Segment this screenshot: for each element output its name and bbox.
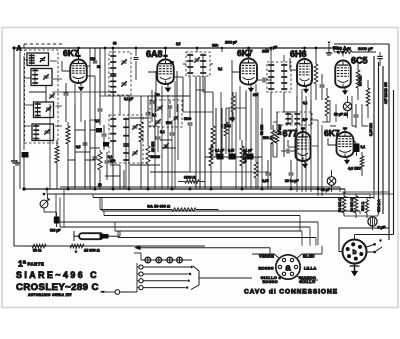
- svg-text:a: a: [285, 263, 291, 274]
- capacitor C31: [290, 160, 292, 172]
- wire dens 3: [215, 108, 217, 157]
- wire drops 2: [154, 96, 156, 189]
- bus 8: [60, 226, 310, 228]
- wire can down: [372, 226, 374, 230]
- wire right mids: [329, 100, 331, 122]
- svg-text:LILLA: LILLA: [304, 266, 317, 271]
- wire dens 11: [84, 120, 86, 189]
- svg-text:AUTORADIO GUIDA XIV: AUTORADIO GUIDA XIV: [28, 293, 72, 297]
- svg-text:20 000: 20 000: [278, 125, 282, 135]
- svg-text:9000 Ω: 9000 Ω: [184, 176, 195, 180]
- svg-text:3000 μF: 3000 μF: [358, 46, 373, 51]
- svg-text:25: 25: [170, 61, 174, 65]
- capacitor C29 blob: [247, 154, 254, 160]
- svg-text:10 000 Ω: 10 000 Ω: [350, 198, 354, 212]
- wire dens 7: [310, 100, 312, 130]
- svg-text:tot. 50 000 Ω: tot. 50 000 Ω: [147, 205, 170, 209]
- wire V1 plate: [78, 48, 80, 56]
- IFT3 secondary: [283, 64, 285, 91]
- node A: [12, 46, 15, 49]
- wire pad mid: [155, 103, 163, 105]
- connector b pins: [359, 252, 363, 256]
- svg-text:μF: μF: [273, 46, 277, 50]
- lamp 2: [156, 257, 162, 263]
- coil L3 box: [34, 102, 54, 118]
- resistor R9: [325, 96, 329, 116]
- wire dens 6: [283, 130, 285, 157]
- arrow V1 cathode: [80, 83, 82, 86]
- resistor R19: [172, 208, 196, 211]
- coil L3: [37, 103, 39, 118]
- coil L1 box: [27, 53, 49, 66]
- wire bottom run: [14, 245, 205, 247]
- tube V5 6C5: [335, 61, 351, 88]
- svg-text:4,3 MΩ: 4,3 MΩ: [348, 167, 361, 171]
- wire h2: [52, 91, 100, 93]
- wire V1 screen: [87, 75, 95, 77]
- wire drops 3: [220, 92, 222, 189]
- wire dens 13: [110, 164, 120, 166]
- svg-text:GIALLO: GIALLO: [299, 279, 316, 284]
- svg-text:50: 50: [113, 42, 117, 46]
- bus junction dots: [23, 188, 26, 191]
- svg-text:6A8: 6A8: [146, 49, 163, 59]
- svg-text:300: 300: [253, 93, 259, 97]
- svg-text:0,5: 0,5: [176, 42, 181, 46]
- ground tuning: [16, 160, 18, 163]
- wire dens 4: [130, 117, 148, 119]
- wire mid column: [128, 95, 130, 189]
- wire left frame lower: [13, 166, 15, 246]
- wire V2 plate top: [165, 48, 167, 56]
- wire switch stub: [50, 60, 57, 62]
- svg-text:0,05: 0,05: [344, 47, 351, 51]
- padder box: [150, 100, 182, 127]
- svg-text:0,5: 0,5: [230, 117, 235, 121]
- resistor R5: [211, 126, 215, 146]
- wire h7: [273, 121, 277, 123]
- connector b circle: [343, 240, 367, 264]
- wire top right link: [352, 51, 376, 53]
- svg-text:0,25 MΩ: 0,25 MΩ: [369, 123, 373, 136]
- wire right elbows: [342, 191, 389, 193]
- resistor R11: [356, 70, 360, 88]
- tube V6 677: [296, 132, 311, 161]
- svg-text:500 Ω: 500 Ω: [361, 201, 365, 211]
- osc enclosure: [109, 115, 143, 163]
- svg-text:30 t.a μF: 30 t.a μF: [285, 179, 298, 183]
- svg-text:b: b: [353, 249, 357, 256]
- svg-text:CAVO di CONNESSIONE: CAVO di CONNESSIONE: [244, 289, 338, 296]
- svg-text:6C5: 6C5: [351, 56, 368, 66]
- capacitor C5 block: [22, 152, 29, 158]
- capacitor C32 blob: [54, 217, 60, 224]
- tube V1 6K7: [70, 60, 87, 83]
- capacitor C35: [171, 120, 173, 132]
- bus 6: [104, 215, 300, 217]
- resistor R3: [139, 122, 143, 142]
- capacitor C6: [65, 83, 67, 92]
- resistor R2: [66, 126, 70, 144]
- wire h5: [226, 107, 246, 109]
- bus chassis 1: [24, 188, 345, 190]
- svg-text:50: 50: [97, 65, 101, 69]
- wire tuning down: [23, 158, 25, 190]
- wire pot: [47, 194, 49, 199]
- wire dens 2: [183, 63, 186, 65]
- IFT1 box: [109, 52, 131, 95]
- wire dens 14: [99, 48, 101, 96]
- wire IFT2 links: [203, 91, 213, 93]
- wire top stubs: [217, 44, 219, 48]
- wire V7 grid: [328, 144, 337, 146]
- trimmer C7: [50, 94, 55, 96]
- resistor R4: [146, 146, 150, 164]
- wire to b: [339, 228, 389, 252]
- IFT1 primary: [112, 55, 114, 76]
- svg-text:ROSSO: ROSSO: [258, 266, 274, 271]
- svg-text:620: 620: [212, 44, 218, 48]
- tube V4 6H6: [297, 59, 312, 86]
- IFT1 secondary: [112, 75, 114, 94]
- wire V6 grid: [288, 146, 296, 148]
- svg-text:5000: 5000: [184, 117, 191, 121]
- svg-text:0,1: 0,1: [160, 130, 165, 134]
- bus verticals: [99, 198, 101, 210]
- resistor R14: [271, 130, 275, 144]
- capacitor C19: [321, 74, 323, 84]
- svg-text:0,1: 0,1: [303, 101, 308, 105]
- svg-text:0,1: 0,1: [361, 145, 366, 149]
- wire IFT1 down: [112, 92, 114, 189]
- capacitor C26 blob: [354, 144, 360, 153]
- capacitor blob A: [96, 128, 102, 133]
- wire dens 15: [90, 59, 95, 61]
- resistor R1: [55, 146, 59, 163]
- wire lamp feed: [136, 247, 270, 249]
- capacitor C33: [157, 128, 159, 136]
- osc coil La: [112, 118, 114, 143]
- capacitor blob B: [103, 142, 109, 147]
- wire h8: [322, 121, 330, 123]
- ground left frame: [13, 158, 15, 161]
- svg-text:300 Ω A: 300 Ω A: [377, 199, 381, 212]
- IFT1 trimmer top: [122, 60, 127, 62]
- coil L4: [35, 125, 37, 141]
- IFT2 primary: [189, 54, 191, 75]
- IFT3 primary: [270, 64, 272, 91]
- coil L1: [31, 54, 33, 65]
- svg-text:500 Ω: 500 Ω: [263, 136, 273, 140]
- fuse R10: [338, 51, 352, 54]
- wire mid horizontals: [190, 171, 268, 173]
- svg-text:PARTE: PARTE: [28, 262, 45, 267]
- resistor R6: [224, 122, 228, 136]
- svg-text:BLEU: BLEU: [303, 254, 315, 259]
- svg-text:6K7: 6K7: [237, 48, 253, 58]
- connector b side pins: [367, 245, 375, 248]
- resistor R24: [70, 244, 84, 248]
- capacitor C20: [377, 55, 383, 57]
- wire dens 16: [177, 104, 179, 127]
- arrow lamp feed: [134, 245, 141, 250]
- capacitor C17: [257, 79, 262, 81]
- wire lamp left: [140, 253, 142, 260]
- trimmer C3: [46, 107, 51, 109]
- capacitor C16: [188, 122, 193, 124]
- arrow V5 cathode: [344, 88, 346, 91]
- wire V4 drops: [296, 74, 298, 192]
- lamp LP1: [327, 177, 336, 186]
- resistor R16: [209, 146, 213, 166]
- tube V3 6K7: [240, 59, 257, 85]
- connector a circle: [276, 255, 300, 279]
- osc trimmer C14: [133, 125, 138, 127]
- trimmer C1: [40, 58, 45, 60]
- svg-text:50 000 Ω: 50 000 Ω: [338, 198, 342, 212]
- capacitor C27 blob: [217, 154, 224, 160]
- svg-text:200: 200: [110, 159, 116, 163]
- resistor R21: [354, 196, 358, 213]
- wire right frame 3: [382, 66, 384, 214]
- wire h3: [148, 125, 158, 127]
- resistor R18: [254, 162, 258, 178]
- bus 7: [56, 221, 318, 223]
- wire left frame: [13, 48, 15, 158]
- IFT2 secondary: [202, 54, 204, 75]
- wire top bus: [14, 47, 334, 49]
- lamp 4: [177, 257, 183, 263]
- wire V4 diode: [290, 69, 297, 71]
- capacitor C23: [103, 125, 105, 133]
- bus 5: [102, 210, 360, 212]
- wire h6: [284, 111, 296, 113]
- wire right frame 1: [373, 56, 375, 190]
- trimmer C34: [164, 144, 169, 146]
- wire dens 5: [160, 139, 172, 141]
- volume pot P1: [40, 200, 48, 208]
- IFT2 box: [186, 52, 210, 76]
- svg-text:VERDE: VERDE: [259, 254, 274, 259]
- capacitor C36: [94, 150, 96, 156]
- AP box: [277, 112, 312, 125]
- wire V1 grid: [62, 70, 70, 72]
- connector a pins: [294, 265, 297, 268]
- wire IFT1 top: [112, 48, 114, 56]
- electrolytic E1: [368, 217, 377, 226]
- IFT3 box: [267, 62, 291, 92]
- wire dens 8: [330, 125, 336, 127]
- arrow V6 cathode: [304, 161, 306, 164]
- svg-text:50 000: 50 000: [359, 76, 363, 86]
- svg-text:10 000: 10 000: [151, 142, 155, 152]
- wire osc drops: [112, 141, 114, 160]
- cable brace: [191, 266, 199, 290]
- coil L4 box: [32, 124, 54, 141]
- ground 6C5 grid: [328, 44, 330, 50]
- resistor R8: [314, 64, 318, 84]
- svg-text:0,5: 0,5: [76, 145, 81, 149]
- cable rail bus: [136, 263, 138, 288]
- wire bank bottom: [344, 215, 378, 217]
- wire IFT3 drops: [270, 92, 272, 130]
- capacitor C18: [265, 48, 267, 52]
- svg-text:50 Ω: 50 Ω: [33, 249, 41, 253]
- trimmer C2: [44, 75, 49, 77]
- svg-text:A: A: [17, 46, 22, 53]
- AP primary: [287, 113, 289, 126]
- connector a wires: [252, 254, 279, 258]
- resistor R15: [360, 156, 364, 168]
- tube V7 6K7: [337, 132, 354, 157]
- capacitor C28 blob: [229, 154, 236, 160]
- wire V4 top: [304, 48, 306, 55]
- wire dens 9: [90, 129, 100, 131]
- ballast resistor: [79, 233, 103, 239]
- wire dens 12: [75, 129, 85, 131]
- padder trimmer C39: [158, 106, 163, 108]
- wire V5 top: [342, 52, 344, 57]
- osc coil Lb: [125, 118, 127, 146]
- capacitor C37: [84, 136, 86, 142]
- resistor R26: [231, 96, 235, 112]
- wire V1 extra drops: [74, 84, 76, 189]
- capacitor C40: [169, 100, 171, 104]
- connector b ground: [354, 264, 356, 273]
- svg-text:500: 500: [166, 121, 172, 125]
- wire blob row: [205, 156, 262, 158]
- band switch enclosure: [25, 50, 59, 143]
- svg-text:500 μF: 500 μF: [50, 229, 60, 233]
- bus 4: [93, 197, 374, 199]
- wire coil feeds: [24, 59, 28, 61]
- wire V3 plate: [248, 48, 250, 55]
- capacitor C38: [93, 60, 98, 62]
- IFT2 trimmer: [195, 58, 200, 60]
- wire V3 grid: [232, 71, 240, 73]
- capacitor C25: [281, 150, 286, 152]
- resistor R17: [240, 146, 244, 166]
- capacitor C22: [99, 96, 101, 108]
- wire drops 4: [261, 108, 263, 189]
- wire right frame 4: [388, 44, 390, 240]
- cable rails: [139, 265, 143, 269]
- jack J1: [343, 102, 351, 110]
- bus 10: [118, 237, 316, 239]
- svg-text:CROSLEY~289 C: CROSLEY~289 C: [16, 282, 99, 293]
- resistor R23: [32, 244, 46, 248]
- resistor R22: [365, 200, 368, 213]
- wire V2 grid: [148, 71, 157, 73]
- wire right frame 2: [378, 62, 380, 214]
- shield V2: [156, 71, 177, 112]
- lamp 3: [167, 257, 173, 263]
- wire IFT1 link: [104, 48, 106, 96]
- wire rail tail: [136, 288, 138, 292]
- wire h4: [183, 111, 213, 113]
- wire V2 drops: [154, 92, 156, 140]
- wire lamp row: [141, 259, 192, 261]
- wire V2 screen: [174, 76, 183, 78]
- coil L2: [34, 69, 36, 85]
- wire right frame 5: [393, 90, 395, 235]
- svg-text:15 000 Ω: 15 000 Ω: [84, 249, 100, 253]
- wire h1: [100, 95, 148, 97]
- bus 9: [115, 230, 302, 232]
- lamp 1: [145, 257, 151, 263]
- AP secondary: [296, 113, 298, 126]
- arrow V3 cathode: [250, 85, 252, 88]
- wire coil common: [19, 48, 21, 189]
- resistor R7: [275, 130, 279, 143]
- svg-text:SIARE~496 C: SIARE~496 C: [16, 270, 99, 280]
- svg-text:OF MOD 65: OF MOD 65: [383, 82, 388, 104]
- svg-text:20: 20: [98, 183, 102, 187]
- capacitor C10: [135, 48, 137, 56]
- IFT1 trimmer bottom: [122, 82, 127, 84]
- wire audio links: [295, 128, 297, 132]
- capacitor C12: [151, 90, 153, 100]
- wire dens 1: [195, 76, 197, 189]
- svg-text:1000 μF: 1000 μF: [225, 41, 237, 45]
- osc coil Lc: [125, 145, 127, 162]
- wire ballast link: [73, 231, 75, 241]
- resistor R20: [342, 196, 346, 213]
- wire pad top: [148, 95, 190, 97]
- wire drops 1: [49, 104, 51, 189]
- tube V2 6A8: [157, 60, 174, 85]
- capacitor C11: [147, 96, 149, 112]
- coil L2 box: [31, 69, 52, 86]
- bus chassis 2: [60, 186, 340, 188]
- osc trimmer C15: [133, 151, 138, 153]
- capacitor C30: [267, 160, 269, 172]
- arrow V2 cathode: [167, 84, 169, 87]
- svg-text:AP: AP: [302, 117, 308, 122]
- svg-text:0,1: 0,1: [218, 67, 223, 71]
- wire IFT2 drop: [189, 76, 191, 120]
- svg-text:0,1 μF: 0,1 μF: [124, 97, 133, 101]
- trimmer C41: [174, 116, 179, 118]
- trimmer C13: [156, 120, 161, 122]
- trimmer C4: [45, 130, 50, 132]
- arrow R24 tap: [75, 246, 77, 250]
- wire top bus dashed: [24, 43, 62, 45]
- arrow V7 cathode: [346, 157, 348, 160]
- capacitor C21: [355, 104, 357, 114]
- wire IFT3 top: [270, 48, 272, 65]
- resistor R12: [366, 88, 370, 106]
- svg-text:0,1: 0,1: [152, 113, 157, 117]
- resistor R13: [98, 152, 102, 170]
- wire dens 10: [45, 86, 47, 102]
- wire V3 drops: [239, 86, 241, 140]
- svg-text:ROSSO: ROSSO: [262, 279, 278, 284]
- arrow V4 cathode: [305, 86, 307, 89]
- capacitor C24: [106, 152, 108, 160]
- svg-text:1ª: 1ª: [18, 259, 27, 269]
- svg-text:0,05: 0,05: [262, 179, 269, 183]
- wire b stub: [354, 235, 356, 240]
- wire h9: [61, 106, 63, 126]
- bus 3: [47, 193, 370, 195]
